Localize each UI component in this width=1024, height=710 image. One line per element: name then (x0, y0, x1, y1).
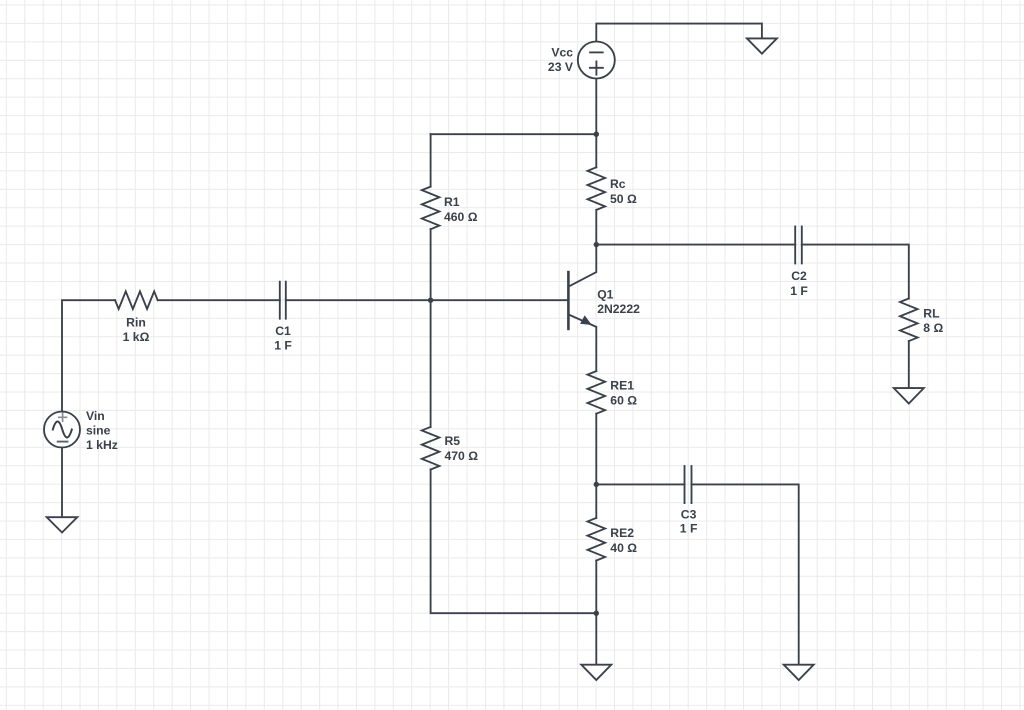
junction collector node dot (594, 242, 599, 247)
resistor Rc (588, 167, 606, 210)
wire Vcc bottom to Rc (595, 79, 597, 168)
svg-text:Rin: Rin (126, 315, 146, 329)
wire RE1 to RE2 (595, 414, 597, 518)
svg-text:1 F: 1 F (680, 521, 698, 535)
svg-text:RE2: RE2 (610, 526, 634, 540)
transistor Q1 base bar (567, 272, 570, 329)
junction emitter node dot (594, 482, 599, 487)
resistor R1 (422, 187, 440, 230)
voltage source Vin (44, 412, 80, 448)
svg-text:C1: C1 (275, 324, 291, 338)
transistor Q1 emitter arrow (580, 315, 592, 325)
wire Vin bottom to ground (61, 448, 63, 518)
wire R5 bottom to ground rail (431, 470, 597, 614)
svg-text:40 Ω: 40 Ω (610, 541, 637, 555)
wire RE2 to ground (595, 561, 597, 665)
resistor RL (900, 299, 918, 342)
svg-text:2N2222: 2N2222 (597, 302, 640, 316)
Vin sine wave (53, 422, 72, 438)
svg-text:RE1: RE1 (610, 379, 634, 393)
svg-text:470 Ω: 470 Ω (445, 449, 479, 463)
svg-text:C3: C3 (681, 507, 697, 521)
resistor R5 (422, 427, 440, 470)
svg-text:1 F: 1 F (274, 339, 292, 353)
svg-text:C2: C2 (791, 269, 807, 283)
ground under RE2 (581, 665, 611, 680)
svg-text:Vcc: Vcc (551, 45, 573, 59)
wire C2 to RL (802, 245, 909, 299)
wire collector node to C2 (596, 244, 795, 246)
ground under Vin (47, 517, 78, 532)
wire Rin to C1 (158, 299, 280, 301)
svg-text:8 Ω: 8 Ω (923, 321, 943, 335)
svg-text:R5: R5 (445, 434, 461, 448)
junction ground rail dot (594, 611, 599, 616)
capacitor C2 (795, 226, 802, 263)
ground under RL (894, 388, 924, 403)
transistor Q1 emitter lead (569, 315, 596, 371)
ground under C3 wire (784, 665, 814, 680)
resistor RE2 (588, 518, 606, 561)
Vin minus sign (58, 441, 68, 443)
capacitor C3 (685, 466, 692, 503)
junction node B dot (428, 298, 433, 303)
svg-text:Rc: Rc (610, 177, 626, 191)
transistor Q1 collector lead (569, 245, 596, 287)
wire R1 top lead (430, 134, 432, 186)
Vcc minus sign (590, 51, 603, 53)
capacitor C1 (280, 282, 286, 319)
junction top rail dot (594, 132, 599, 137)
wire RL to ground (908, 341, 910, 388)
svg-text:1 kΩ: 1 kΩ (123, 330, 150, 344)
svg-text:50 Ω: 50 Ω (610, 192, 637, 206)
wire C1 to Q1 base (286, 299, 569, 301)
ground top right (747, 38, 777, 53)
wire Vcc top to ground (596, 24, 762, 42)
wire C3 to ground (692, 484, 799, 664)
wire input net left vertical and horizontal to Rin (62, 300, 115, 411)
wire emitter node to C3 (596, 483, 684, 485)
voltage source Vcc (578, 42, 615, 79)
svg-text:sine: sine (86, 424, 111, 438)
svg-text:1 kHz: 1 kHz (86, 438, 118, 452)
wire node B to R5 (430, 300, 432, 427)
svg-text:R1: R1 (444, 195, 460, 209)
resistor Rin (115, 291, 158, 309)
svg-text:460 Ω: 460 Ω (444, 210, 478, 224)
svg-text:Vin: Vin (86, 409, 105, 423)
svg-text:RL: RL (923, 307, 940, 321)
wire R1 bottom to node B (430, 229, 432, 300)
wire Rc bottom to collector node (595, 210, 597, 245)
svg-text:1 F: 1 F (790, 284, 808, 298)
wire top rail R1 to Vcc (431, 133, 597, 135)
resistor RE1 (588, 371, 606, 414)
Vcc plus sign (590, 61, 603, 74)
Vin plus sign (59, 413, 67, 421)
svg-text:Q1: Q1 (597, 287, 613, 301)
svg-text:60 Ω: 60 Ω (610, 394, 637, 408)
svg-text:23 V: 23 V (548, 60, 574, 74)
